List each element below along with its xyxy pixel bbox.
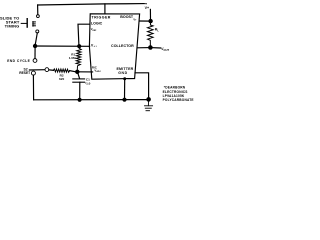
node END CYCLE terminal: [33, 59, 37, 63]
node GND stub top dot: [123, 77, 126, 80]
svg-text:*1.0: *1.0: [85, 82, 91, 86]
wire node A to END CYCLE terminal: [34, 46, 36, 58]
label SLIDE TO START TIMING: [0, 16, 20, 29]
svg-text:BOOST: BOOST: [120, 15, 134, 19]
wire node B to capacitor top: [78, 72, 80, 79]
resistor R1 zigzag: [76, 46, 81, 70]
wire ground bus: [34, 99, 149, 101]
wire IC GND pin stub: [124, 79, 126, 100]
svg-text:LOGIC: LOGIC: [91, 21, 103, 25]
wire collector node to VOUT: [150, 47, 160, 49]
node V+ arrow terminal: [144, 3, 147, 5]
svg-text:RESET: RESET: [19, 71, 30, 75]
switch S2 contact circle: [45, 68, 49, 72]
label R1 value: [69, 52, 76, 60]
node B junction dot (R1/R2/C1 to R-C pin): [75, 70, 79, 74]
capacitor C1 top plate: [73, 78, 85, 80]
node R1 top junction dot: [77, 44, 81, 48]
switch S1 top contact: [37, 15, 40, 18]
label R2 value: [59, 74, 64, 81]
wire V+ terminal vertical: [149, 9, 151, 20]
svg-text:POLYCARBONATE: POLYCARBONATE: [163, 98, 194, 102]
svg-text:V+: V+: [133, 19, 137, 22]
wire TRIGGER stub from bus: [104, 4, 106, 14]
label C1 value: [85, 77, 91, 85]
svg-text:END CYCLE: END CYCLE: [7, 59, 30, 63]
ground symbol: [145, 100, 153, 111]
wire LOGIC pin loop: [78, 24, 90, 45]
node GND-bus junction dot: [122, 98, 126, 102]
switch S1 actuator shaft: [21, 22, 26, 24]
wire S2 row left: [29, 69, 45, 71]
wire S1 top stub: [37, 5, 39, 15]
wire R2 to node B: [70, 71, 76, 72]
resistor R2 zigzag: [53, 69, 69, 72]
svg-text:620: 620: [59, 77, 64, 81]
node emitter-bus-ground junction dot: [146, 97, 151, 102]
svg-text:COLLECTOR: COLLECTOR: [111, 44, 134, 48]
wire EMITTER pin to ground column: [135, 73, 149, 100]
label capacitor note: [163, 85, 194, 102]
capacitor C1 bottom plate: [73, 81, 85, 83]
svg-text:TRIGGER: TRIGGER: [92, 15, 111, 19]
op-amp U1 timer IC body: [89, 14, 139, 79]
svg-text:V+s: V+s: [91, 44, 98, 49]
node A junction dot: [33, 44, 37, 48]
wire top V+ bus: [38, 4, 144, 5]
wire RESET down to bus: [32, 75, 34, 100]
svg-text:V+: V+: [145, 6, 150, 10]
wire node A to IC V+ pin: [35, 45, 90, 47]
resistor RL zigzag: [148, 21, 154, 47]
wire node B to IC R/C pin: [77, 71, 92, 73]
svg-text:TIMING: TIMING: [5, 23, 20, 28]
node capacitor-bus junction dot: [78, 98, 82, 102]
wire S2 circle to R2: [49, 69, 54, 72]
wire capacitor bottom to ground bus: [79, 82, 81, 100]
node BOOST junction dot: [148, 19, 152, 23]
wire COLLECTOR pin: [137, 47, 150, 49]
wire S1 bottom to node A: [35, 33, 37, 45]
node RESET terminal: [31, 71, 35, 75]
switch S1 bottom contact: [36, 30, 39, 33]
svg-text:GND: GND: [118, 71, 127, 75]
svg-text:1.0M: 1.0M: [69, 56, 76, 60]
switch S1 actuator bar: [26, 19, 28, 27]
svg-text:*DEARBORN: *DEARBORN: [164, 85, 186, 89]
wire BOOST pin: [139, 20, 150, 22]
node collector junction dot: [148, 45, 153, 50]
switch S1 pole contact E-bar: [33, 22, 36, 27]
